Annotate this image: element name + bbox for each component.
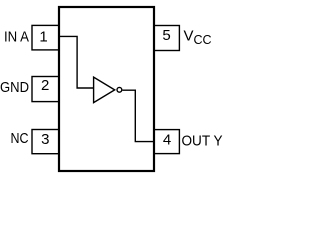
svg-text:5: 5: [162, 27, 170, 44]
svg-text:IN A: IN A: [4, 28, 29, 45]
svg-text:3: 3: [41, 131, 49, 148]
svg-text:OUT Y: OUT Y: [182, 133, 223, 150]
svg-text:V: V: [184, 28, 194, 45]
svg-text:2: 2: [41, 77, 49, 94]
svg-text:CC: CC: [194, 33, 212, 47]
svg-text:1: 1: [39, 29, 47, 46]
svg-text:GND: GND: [0, 79, 29, 96]
svg-text:4: 4: [163, 131, 171, 148]
svg-text:NC: NC: [11, 130, 29, 147]
